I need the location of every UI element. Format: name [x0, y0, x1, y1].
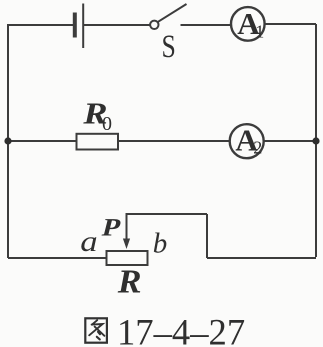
ammeter A2 circle	[230, 124, 264, 158]
svg-text:17–4–27: 17–4–27	[117, 311, 245, 347]
wire battery to switch	[84, 24, 150, 26]
svg-text:R: R	[117, 262, 142, 300]
wire slider riser and top run	[127, 214, 208, 240]
svg-text:2: 2	[253, 138, 262, 158]
wire top-left: left edge up and across to battery	[8, 25, 73, 258]
wire step down from slider run	[206, 214, 208, 258]
wire bottom-left: left edge to rheostat	[8, 257, 107, 259]
wire middle-left: node to R0	[8, 140, 77, 142]
battery G (cell)	[75, 4, 83, 49]
wiper arrow P of rheostat	[123, 239, 130, 250]
svg-text:a: a	[80, 225, 97, 258]
svg-text:0: 0	[102, 113, 112, 135]
resistor R0 box	[77, 134, 119, 150]
svg-text:1: 1	[255, 21, 264, 41]
ammeter A1 circle	[231, 7, 265, 41]
wire A2 to right node	[264, 140, 316, 142]
wire right edge	[315, 24, 317, 257]
wire bottom-right: step to right edge	[207, 257, 316, 259]
wire R0 to A2	[118, 140, 229, 142]
switch S	[150, 4, 186, 29]
node right junction	[312, 137, 319, 144]
node left junction	[4, 137, 11, 144]
wire A1 to top-right corner	[265, 23, 316, 25]
wire switch to ammeter A1	[181, 24, 231, 26]
svg-text:S: S	[162, 29, 176, 65]
resistor R rheostat box	[107, 251, 148, 265]
svg-text:b: b	[153, 227, 168, 259]
caption character 图 (drawn)	[85, 318, 107, 342]
